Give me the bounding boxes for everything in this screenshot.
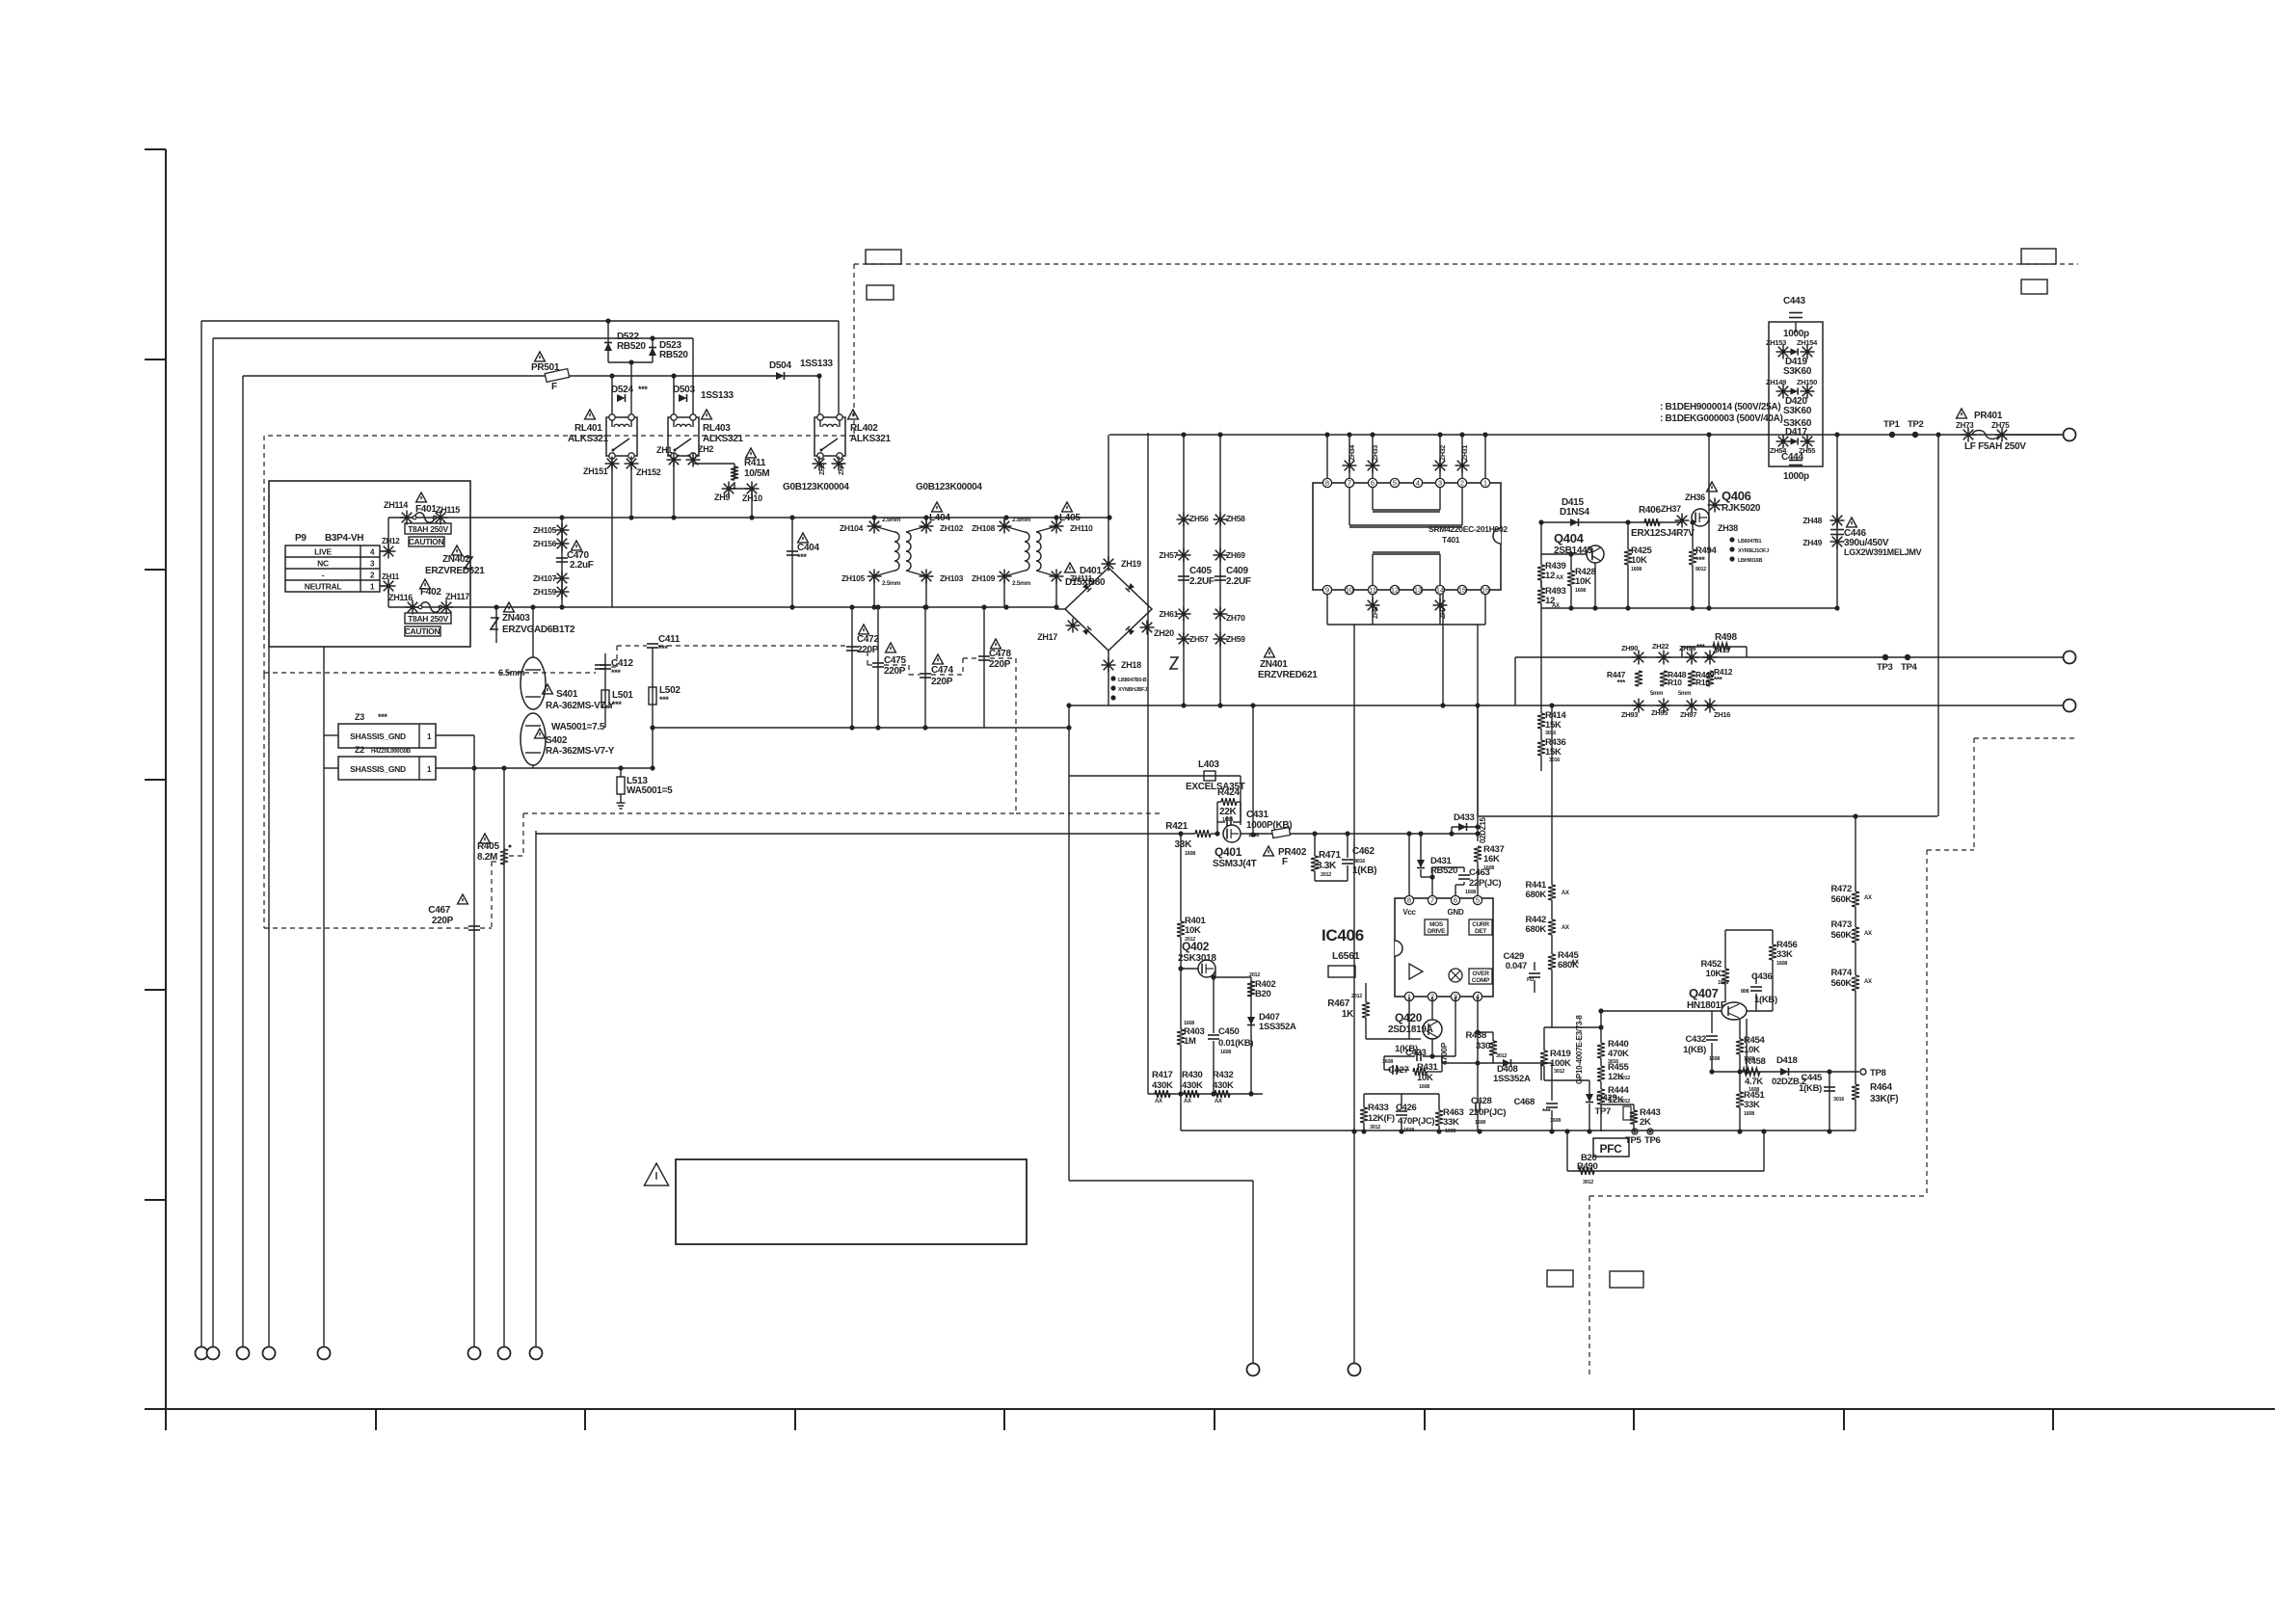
svg-text:1SS133: 1SS133: [800, 359, 834, 369]
svg-text:PD: PD: [1527, 977, 1534, 983]
svg-text:ZH105: ZH105: [841, 573, 866, 583]
svg-text:AX: AX: [1864, 979, 1872, 985]
svg-text:220P: 220P: [989, 659, 1011, 670]
svg-text:ZH31: ZH31: [1462, 445, 1469, 461]
svg-text:ZH36: ZH36: [1685, 492, 1705, 502]
svg-text:2: 2: [1460, 479, 1464, 488]
svg-text:AX: AX: [1184, 1099, 1191, 1104]
svg-text:3: 3: [1438, 479, 1442, 488]
svg-text:1608: 1608: [1419, 1084, 1429, 1090]
svg-text:430K: 430K: [1152, 1080, 1173, 1091]
svg-text:L6561: L6561: [1332, 950, 1360, 962]
svg-text:F: F: [1282, 857, 1288, 867]
svg-text:ZH2: ZH2: [698, 444, 713, 454]
svg-text:R464: R464: [1870, 1082, 1892, 1093]
svg-text:220P: 220P: [432, 916, 454, 926]
svg-text:1SS352A: 1SS352A: [1493, 1074, 1531, 1084]
svg-text:ZH97: ZH97: [1680, 710, 1696, 719]
svg-text:ZH56: ZH56: [1189, 514, 1209, 523]
svg-text:0.047: 0.047: [1506, 961, 1527, 971]
svg-text:RL402: RL402: [850, 423, 878, 434]
svg-text:AX: AX: [1864, 931, 1872, 937]
svg-text:RB520: RB520: [659, 350, 688, 360]
svg-text:C467: C467: [428, 905, 450, 916]
svg-text:C405: C405: [1189, 566, 1212, 576]
svg-text:560K: 560K: [1830, 978, 1852, 989]
svg-text:ZH32: ZH32: [1440, 445, 1447, 461]
svg-text:S401: S401: [556, 689, 578, 700]
svg-text:22K: 22K: [1219, 807, 1238, 817]
svg-text:P9: P9: [295, 533, 307, 544]
svg-text:1608: 1608: [1718, 980, 1728, 986]
svg-text:ZH103: ZH103: [940, 573, 964, 583]
svg-text:C444: C444: [1781, 452, 1803, 463]
svg-text:ZH154: ZH154: [1797, 338, 1818, 347]
svg-text:D433: D433: [1454, 812, 1475, 823]
svg-text:10: 10: [1346, 586, 1353, 595]
svg-text:2.5mm: 2.5mm: [882, 580, 901, 587]
svg-text:ZH93: ZH93: [1621, 710, 1638, 719]
svg-text:680K: 680K: [1525, 924, 1546, 935]
svg-text:D1NS4: D1NS4: [1560, 507, 1589, 518]
svg-text:ZH110: ZH110: [1070, 523, 1093, 533]
svg-text:1608: 1608: [1776, 961, 1787, 967]
svg-text:R473: R473: [1830, 919, 1852, 930]
svg-text:3012: 3012: [1496, 1053, 1507, 1059]
svg-text:EXCELSA35T: EXCELSA35T: [1186, 782, 1245, 792]
svg-text:G0B123K00004: G0B123K00004: [916, 482, 982, 492]
svg-text:D15XB80: D15XB80: [1065, 577, 1106, 588]
svg-text:ZH75: ZH75: [1991, 421, 2010, 430]
svg-text:***: ***: [1617, 678, 1627, 687]
svg-text:ZH153: ZH153: [1766, 338, 1786, 347]
svg-text:B20: B20: [1255, 989, 1271, 999]
svg-text:ZH90: ZH90: [1621, 644, 1638, 652]
svg-text:3.3K: 3.3K: [1317, 861, 1337, 871]
svg-text:CURR: CURR: [1472, 921, 1489, 928]
svg-text:5: 5: [1393, 479, 1397, 488]
svg-text:1K: 1K: [1342, 1009, 1354, 1020]
svg-text:C445: C445: [1801, 1073, 1823, 1083]
svg-text:3016: 3016: [1833, 1097, 1844, 1103]
svg-text:***: ***: [1542, 1107, 1552, 1116]
svg-text:680K: 680K: [1525, 890, 1546, 900]
svg-text:808: 808: [1741, 989, 1749, 995]
svg-text:D417: D417: [1785, 427, 1807, 438]
svg-text:10K: 10K: [1631, 555, 1647, 566]
svg-text:ZH156: ZH156: [533, 539, 557, 548]
svg-text:2012: 2012: [1351, 994, 1362, 999]
svg-text:ZH107: ZH107: [533, 573, 557, 583]
svg-text:AX: AX: [1215, 1099, 1222, 1104]
svg-text:IC406: IC406: [1322, 926, 1364, 945]
svg-text:ZN402: ZN402: [442, 554, 470, 565]
svg-text:TP7: TP7: [1594, 1106, 1611, 1117]
svg-text:C468: C468: [1513, 1097, 1535, 1107]
svg-text:100K: 100K: [1550, 1058, 1571, 1069]
svg-text:AX: AX: [1556, 575, 1563, 581]
svg-text:R498: R498: [1715, 632, 1737, 643]
svg-text:12: 12: [1545, 571, 1555, 581]
svg-text:33K: 33K: [1175, 839, 1193, 850]
svg-text:2012: 2012: [1249, 972, 1260, 978]
svg-text:ZH59: ZH59: [1226, 634, 1245, 644]
svg-text:1608: 1608: [1744, 1111, 1754, 1117]
svg-text:12: 12: [1391, 586, 1399, 595]
svg-text:ZH69: ZH69: [1226, 550, 1245, 560]
svg-text:ZH117: ZH117: [445, 592, 469, 601]
svg-text:R10: R10: [1695, 678, 1710, 687]
svg-text:ZH159: ZH159: [533, 587, 557, 597]
svg-text:ZH73: ZH73: [1956, 421, 1974, 430]
svg-text:S3K60: S3K60: [1783, 366, 1812, 377]
svg-text:ZH37: ZH37: [1661, 504, 1681, 514]
svg-text:2.5mm: 2.5mm: [1012, 517, 1031, 523]
svg-text:WA5001=5: WA5001=5: [627, 785, 673, 796]
svg-text:1608: 1608: [1445, 1129, 1455, 1134]
svg-text:ZH104: ZH104: [840, 523, 864, 533]
svg-text:ZH95: ZH95: [1651, 708, 1668, 717]
svg-text:8.2M: 8.2M: [477, 852, 497, 863]
svg-text:Vcc: Vcc: [1402, 908, 1416, 917]
svg-text:F: F: [551, 382, 557, 392]
svg-text:33K: 33K: [1443, 1117, 1459, 1128]
svg-text:ZH57: ZH57: [1189, 634, 1209, 644]
svg-text:NEUTRAL: NEUTRAL: [305, 582, 342, 592]
svg-text:2.2uF: 2.2uF: [570, 560, 594, 571]
svg-text:AX: AX: [1571, 960, 1579, 966]
svg-text:ERX12SJ4R7V: ERX12SJ4R7V: [1631, 528, 1695, 539]
svg-text:ZH61: ZH61: [1159, 609, 1178, 619]
svg-text:XYNBHJBFJ: XYNBHJBFJ: [1118, 687, 1147, 693]
svg-text:ZH58: ZH58: [1226, 514, 1245, 523]
svg-text:***: ***: [659, 695, 669, 705]
svg-text:6: 6: [1454, 896, 1457, 905]
svg-text:2.2UF: 2.2UF: [1226, 576, 1251, 587]
svg-text:C450: C450: [1218, 1026, 1240, 1037]
svg-text:CAUTION: CAUTION: [405, 626, 441, 636]
svg-text:3016: 3016: [1549, 758, 1560, 763]
svg-text:8012: 8012: [1695, 567, 1706, 572]
svg-text:ZH152: ZH152: [636, 467, 661, 477]
svg-text:1(KB): 1(KB): [1352, 865, 1376, 876]
svg-text:ZH49: ZH49: [1802, 538, 1822, 547]
svg-text:D401: D401: [1080, 566, 1102, 576]
svg-text:R411: R411: [744, 458, 766, 468]
svg-text:ZH102: ZH102: [940, 523, 964, 533]
svg-text:ZH70: ZH70: [1226, 613, 1245, 623]
svg-text:R438: R438: [1465, 1030, 1486, 1041]
svg-text:1608: 1608: [1220, 1050, 1231, 1055]
svg-text:4.7K: 4.7K: [1745, 1077, 1763, 1087]
svg-text:R471: R471: [1319, 850, 1341, 861]
svg-text:RB520: RB520: [617, 341, 646, 352]
svg-text:C475: C475: [884, 655, 906, 666]
svg-text:15K: 15K: [1545, 720, 1562, 731]
svg-text:9: 9: [1325, 586, 1329, 595]
svg-text:ZH19: ZH19: [1121, 559, 1141, 569]
svg-text:DET: DET: [1475, 928, 1486, 935]
svg-text:CAUTION: CAUTION: [409, 537, 444, 546]
svg-text:1608: 1608: [1475, 1120, 1485, 1126]
svg-text:ZH33: ZH33: [1373, 445, 1379, 461]
svg-text:R406: R406: [1639, 505, 1661, 516]
svg-text:AX: AX: [1864, 895, 1872, 901]
svg-text:C443: C443: [1783, 296, 1805, 306]
svg-text:5: 5: [1476, 896, 1480, 905]
svg-text:ERZVGAD6B1T2: ERZVGAD6B1T2: [502, 625, 575, 635]
svg-text:1: 1: [1483, 479, 1487, 488]
svg-text:H4ZZ0L000G0B: H4ZZ0L000G0B: [371, 749, 412, 755]
svg-text:R474: R474: [1830, 968, 1853, 978]
svg-text:RA-362MS-V7-Y: RA-362MS-V7-Y: [546, 746, 615, 757]
svg-text:ZH1: ZH1: [656, 445, 672, 455]
svg-text:AX: AX: [1562, 891, 1569, 896]
svg-text:ZH57: ZH57: [1159, 550, 1178, 560]
svg-text:SHASSIS_GND: SHASSIS_GND: [350, 764, 406, 774]
svg-text:TP5: TP5: [1625, 1135, 1642, 1146]
svg-text:ZH17: ZH17: [1037, 632, 1057, 642]
svg-text:D429: D429: [1596, 1093, 1617, 1104]
svg-text:C431: C431: [1246, 810, 1268, 820]
svg-text:R430: R430: [1182, 1070, 1203, 1080]
svg-text:8: 8: [1325, 479, 1329, 488]
svg-text:ZH151: ZH151: [583, 466, 608, 476]
svg-text:T401: T401: [1442, 535, 1460, 545]
svg-text:C472: C472: [857, 634, 879, 645]
svg-text:RL403: RL403: [703, 423, 731, 434]
svg-text:LGX2W391MELJMV: LGX2W391MELJMV: [1844, 547, 1922, 557]
svg-text:L404: L404: [929, 513, 950, 523]
svg-text:33K: 33K: [1776, 949, 1793, 960]
svg-text:ERZVRED621: ERZVRED621: [425, 566, 485, 576]
svg-text:10K: 10K: [1705, 969, 1722, 979]
svg-text:TP2: TP2: [1908, 419, 1924, 430]
svg-text:430K: 430K: [1213, 1080, 1234, 1091]
svg-text:C478: C478: [989, 649, 1011, 659]
svg-text:3016: 3016: [1545, 731, 1556, 736]
svg-text:Q401: Q401: [1215, 845, 1242, 859]
svg-text:TP4: TP4: [1901, 662, 1918, 673]
svg-text:33K: 33K: [1744, 1100, 1760, 1110]
svg-text:7: 7: [1348, 479, 1351, 488]
svg-text:2.5mm: 2.5mm: [1012, 580, 1031, 587]
svg-text:Z2: Z2: [355, 745, 364, 755]
svg-text:14: 14: [1436, 586, 1444, 595]
svg-text:ZH109: ZH109: [972, 573, 996, 583]
svg-text:15: 15: [1458, 586, 1466, 595]
svg-text:RL401: RL401: [574, 423, 602, 434]
svg-text:33K(F): 33K(F): [1870, 1094, 1898, 1104]
svg-text:AX: AX: [1562, 925, 1569, 931]
svg-text:MOS: MOS: [1429, 921, 1444, 928]
svg-text:***: ***: [1695, 555, 1705, 565]
svg-text:2K: 2K: [1640, 1117, 1651, 1128]
svg-text:***: ***: [378, 712, 387, 722]
svg-text:C436: C436: [1751, 971, 1773, 982]
svg-text:16K: 16K: [1483, 854, 1500, 865]
svg-text:8: 8: [1407, 896, 1411, 905]
svg-text:RJK5020: RJK5020: [1722, 503, 1761, 514]
svg-text:ZH115: ZH115: [436, 505, 460, 515]
svg-text:ZN401: ZN401: [1260, 659, 1288, 670]
svg-text:DRIVE: DRIVE: [1428, 928, 1446, 935]
svg-text:2012: 2012: [1321, 872, 1331, 878]
svg-text:ZH9: ZH9: [714, 492, 730, 502]
svg-text:T8AH 250V: T8AH 250V: [408, 614, 448, 624]
svg-text:1608: 1608: [1709, 1056, 1720, 1062]
svg-text:Q406: Q406: [1722, 489, 1751, 503]
svg-text:LIVE: LIVE: [314, 547, 332, 557]
svg-text:16: 16: [1482, 586, 1489, 595]
svg-text:LB8047B0-B: LB8047B0-B: [1118, 678, 1147, 683]
svg-text:1608: 1608: [1575, 588, 1586, 594]
svg-text:1608: 1608: [1185, 851, 1195, 857]
svg-text:3012: 3012: [1554, 1069, 1564, 1075]
svg-text:***: ***: [797, 552, 807, 562]
svg-text:1608: 1608: [1744, 1056, 1754, 1062]
svg-text:G0B123K00004: G0B123K00004: [783, 482, 849, 492]
svg-text:430K: 430K: [1182, 1080, 1203, 1091]
svg-text:C432: C432: [1685, 1034, 1706, 1045]
svg-text:TP1: TP1: [1883, 419, 1901, 430]
svg-text:R432: R432: [1213, 1070, 1234, 1080]
svg-text:GP10-4007E-E3/73-8: GP10-4007E-E3/73-8: [1575, 1015, 1584, 1084]
svg-text:4: 4: [1416, 479, 1420, 488]
svg-text:220P: 220P: [884, 666, 906, 677]
svg-text:3012: 3012: [1619, 1099, 1630, 1104]
svg-text:3012: 3012: [1583, 1180, 1593, 1185]
svg-text:2SD1819A: 2SD1819A: [1388, 1024, 1433, 1035]
svg-text:L403: L403: [1198, 759, 1219, 770]
svg-text:1SS352A: 1SS352A: [1259, 1022, 1296, 1032]
svg-text:ZH8: ZH8: [1373, 606, 1379, 619]
svg-text:LB6047B1: LB6047B1: [1738, 539, 1761, 545]
svg-text:***: ***: [638, 385, 648, 394]
svg-text:D504: D504: [769, 360, 791, 371]
svg-text:2.5mm: 2.5mm: [882, 517, 901, 523]
svg-text:S3K60: S3K60: [1783, 406, 1812, 416]
svg-text:F402: F402: [420, 587, 441, 598]
svg-text:D418: D418: [1776, 1055, 1798, 1066]
svg-text:C463: C463: [1469, 867, 1490, 878]
svg-text:3012: 3012: [1619, 1076, 1630, 1081]
svg-text:R433: R433: [1368, 1103, 1389, 1113]
svg-text:1608: 1608: [1465, 890, 1476, 895]
svg-text:10K: 10K: [1744, 1045, 1760, 1055]
svg-text:PFC: PFC: [1599, 1142, 1622, 1156]
svg-text:ZH18: ZH18: [1121, 660, 1141, 670]
svg-text:1SS133: 1SS133: [701, 390, 734, 401]
svg-text:1608: 1608: [1631, 567, 1642, 572]
svg-text:RA-362MS-V7-Y: RA-362MS-V7-Y: [546, 701, 615, 711]
svg-text:C474: C474: [931, 665, 953, 676]
svg-text:1608: 1608: [1550, 1118, 1561, 1124]
svg-text:ZH15: ZH15: [1713, 646, 1729, 654]
svg-text:C426: C426: [1396, 1103, 1417, 1113]
svg-text:Q404: Q404: [1554, 531, 1585, 545]
svg-text:02DZ15: 02DZ15: [1479, 816, 1487, 843]
svg-text:LF F5AH 250V: LF F5AH 250V: [1964, 441, 2026, 452]
svg-text:COMP: COMP: [1472, 977, 1490, 984]
svg-text:SSM3J(4T: SSM3J(4T: [1213, 859, 1257, 869]
svg-text:: B1DEH9000014 (500V/25A): : B1DEH9000014 (500V/25A): [1660, 402, 1780, 412]
svg-text:ZH108: ZH108: [972, 523, 996, 533]
svg-text:ZH149: ZH149: [1766, 378, 1786, 386]
svg-text:ZH150: ZH150: [1797, 378, 1817, 386]
svg-text:C409: C409: [1226, 566, 1248, 576]
svg-text:Q402: Q402: [1182, 940, 1210, 953]
svg-text:Z3: Z3: [355, 712, 364, 722]
svg-text:B3P4-VH: B3P4-VH: [325, 533, 363, 544]
svg-text:1000p: 1000p: [1783, 471, 1809, 482]
svg-text:3012: 3012: [1370, 1125, 1380, 1131]
svg-text:5mm: 5mm: [1650, 691, 1663, 697]
svg-text:***: ***: [1714, 676, 1723, 684]
svg-text:330: 330: [1476, 1041, 1490, 1051]
svg-text:5mm: 5mm: [1678, 691, 1691, 697]
svg-text:ZH114: ZH114: [384, 500, 408, 510]
svg-text:11: 11: [1369, 586, 1376, 595]
svg-text:ZH48: ZH48: [1802, 516, 1822, 525]
svg-text:ALKS321: ALKS321: [568, 434, 609, 444]
svg-text:R490: R490: [1577, 1161, 1598, 1172]
svg-text:OVER: OVER: [1472, 971, 1489, 977]
svg-text:TP3: TP3: [1877, 662, 1893, 673]
svg-text:10K: 10K: [1185, 925, 1201, 936]
svg-text:F401: F401: [415, 504, 437, 515]
svg-text:R467: R467: [1327, 998, 1349, 1009]
svg-text:Q407: Q407: [1689, 986, 1719, 1000]
svg-text:XYR0EJ1OFJ: XYR0EJ1OFJ: [1738, 548, 1769, 554]
svg-text:ZH16: ZH16: [1714, 710, 1730, 719]
svg-text:WA5001=7.5: WA5001=7.5: [551, 722, 605, 732]
svg-text:4700P: 4700P: [1439, 1042, 1449, 1065]
svg-text:10K: 10K: [1417, 1073, 1433, 1083]
svg-text:12K(F): 12K(F): [1368, 1113, 1395, 1124]
svg-text:220P(JC): 220P(JC): [1469, 1107, 1506, 1118]
svg-text:ALKS321: ALKS321: [703, 434, 744, 444]
svg-text:10K: 10K: [1575, 576, 1591, 587]
svg-text:SRM4220EC-201H002: SRM4220EC-201H002: [1428, 524, 1508, 534]
svg-text:1(KB): 1(KB): [1754, 995, 1777, 1005]
svg-text:D524: D524: [611, 385, 633, 395]
svg-text:D503: D503: [673, 385, 695, 395]
svg-text:ZH116: ZH116: [388, 593, 413, 602]
svg-text:ZH105: ZH105: [533, 525, 557, 535]
svg-text:HN1801F: HN1801F: [1687, 1000, 1726, 1011]
svg-text:***: ***: [612, 700, 622, 709]
svg-text:C428: C428: [1471, 1096, 1492, 1106]
svg-text:22P(JC): 22P(JC): [1469, 878, 1501, 889]
svg-text:S402: S402: [546, 735, 568, 746]
svg-text:ZH4: ZH4: [839, 463, 845, 475]
svg-text:1M: 1M: [1184, 1036, 1196, 1047]
svg-text:ZH38: ZH38: [1718, 523, 1738, 533]
svg-text:R10: R10: [1668, 678, 1682, 687]
svg-text:ZH22: ZH22: [1652, 642, 1669, 651]
svg-text:1(KB): 1(KB): [1799, 1083, 1822, 1094]
svg-text:8016: 8016: [1354, 859, 1365, 865]
svg-text:NC: NC: [317, 559, 329, 569]
svg-text:R405: R405: [477, 841, 499, 852]
svg-text:560K: 560K: [1830, 894, 1852, 905]
svg-text:R421: R421: [1165, 821, 1188, 832]
svg-text:R472: R472: [1830, 884, 1852, 894]
svg-text:1(KB): 1(KB): [1683, 1045, 1706, 1055]
svg-text:AX: AX: [1155, 1099, 1162, 1104]
svg-text:13: 13: [1414, 586, 1422, 595]
